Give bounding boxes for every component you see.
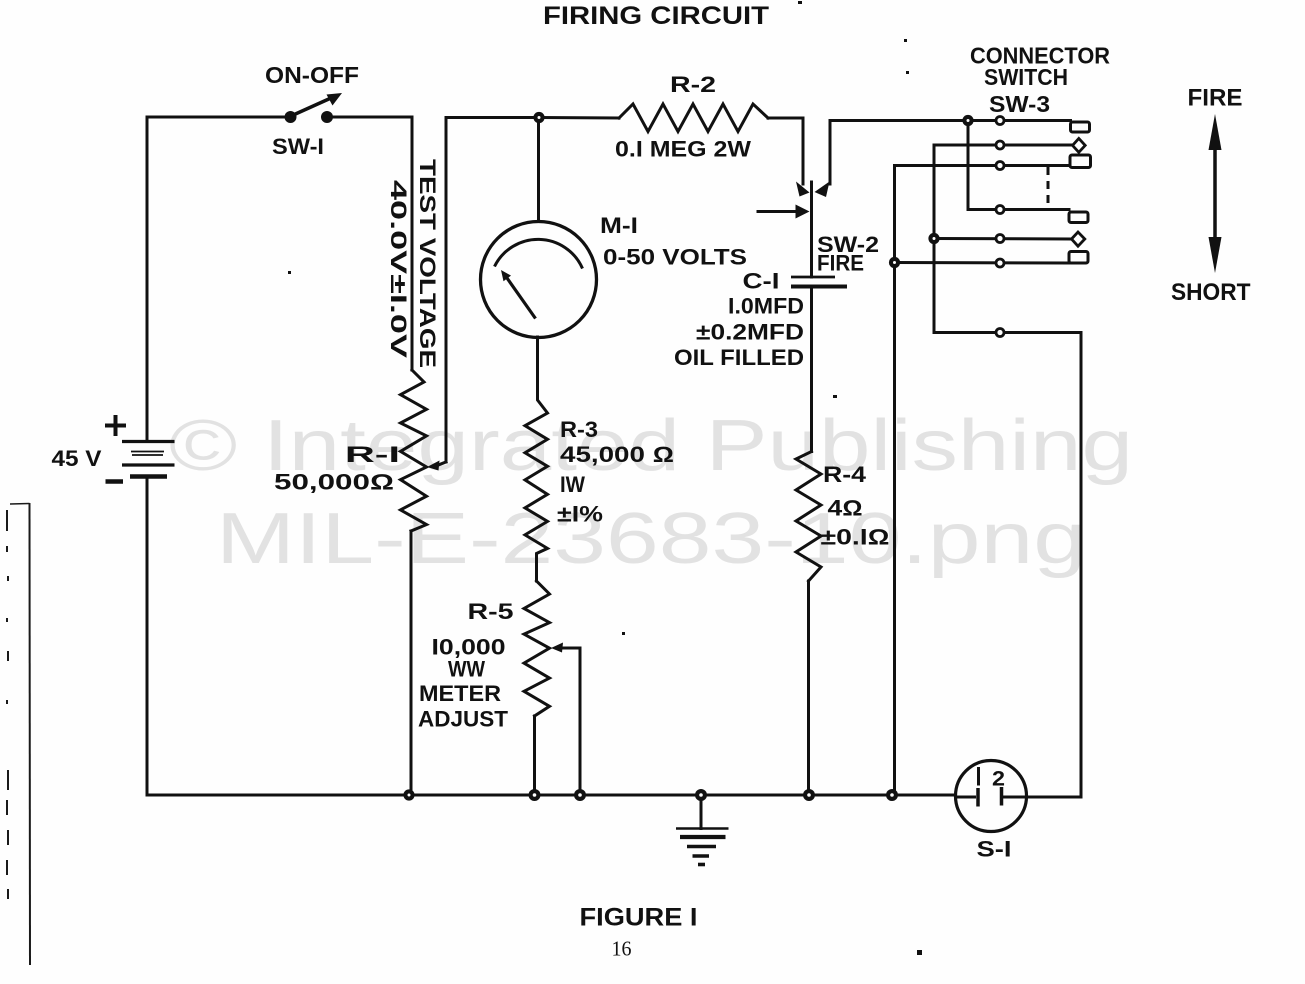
- battery 45V plates: [122, 440, 175, 443]
- junction node rail ground: [695, 789, 707, 801]
- connector S-1 circle: [956, 761, 1027, 832]
- connector SW-3 contact row 7: [996, 329, 1004, 337]
- svg-text:TEST VOLTAGE: TEST VOLTAGE: [415, 159, 440, 368]
- svg-text:±I%: ±I%: [557, 502, 603, 527]
- svg-text:16: 16: [612, 937, 632, 961]
- connector diamond contact row 5: [1072, 232, 1085, 246]
- connector SW-3 contact row 2: [996, 141, 1004, 149]
- connector pin terminal row 1: [1071, 122, 1090, 132]
- wire meter top lead: [537, 118, 540, 222]
- wire battery top to SW-1: [147, 117, 290, 442]
- svg-text:MIL-E-23683-10.png: MIL-E-23683-10.png: [216, 499, 1086, 579]
- S-1 right contact: [1000, 787, 1004, 806]
- junction node row 6: [889, 257, 900, 268]
- wire row 5: [934, 237, 1072, 241]
- capacitor C1 bottom plate: [791, 285, 847, 289]
- wire battery bottom rail: [147, 477, 956, 796]
- svg-text:0.I MEG 2W: 0.I MEG 2W: [615, 137, 751, 162]
- svg-text:FIRE: FIRE: [817, 251, 864, 276]
- junction node rail R-3: [529, 789, 541, 801]
- resistor R3 zigzag: [525, 337, 548, 581]
- S-1 pin 1 mark: [977, 767, 980, 786]
- meter M1 scale arc: [495, 239, 583, 268]
- fire-short direction arrow: [1213, 130, 1217, 260]
- SW-2 actuator line: [758, 210, 797, 213]
- wire C-1 to R-4: [810, 287, 813, 452]
- wire ground stem: [700, 795, 703, 829]
- meter M1 circle: [481, 222, 597, 338]
- junction node row 5: [928, 233, 939, 244]
- svg-text:ON-OFF: ON-OFF: [265, 62, 359, 88]
- svg-text:IW: IW: [560, 472, 585, 497]
- wire SW-2 pole to C-1: [810, 182, 813, 277]
- svg-text:OIL FILLED: OIL FILLED: [674, 345, 804, 370]
- svg-text:FIRE: FIRE: [1188, 85, 1243, 112]
- connector pin terminal row 4: [1069, 212, 1088, 223]
- wire S-1 left lead: [956, 796, 975, 799]
- connector SW-3 contact row 1: [996, 117, 1004, 125]
- wire rows 3-6 vertical to ground rail: [893, 166, 896, 796]
- connector SW-3 contact row 5: [996, 235, 1004, 243]
- S-1 left contact: [976, 788, 980, 807]
- svg-text:SW-3: SW-3: [989, 91, 1050, 117]
- battery plus sign: [105, 415, 126, 436]
- R-1 wiper diagonal: [437, 462, 446, 466]
- svg-text:ADJUST: ADJUST: [418, 707, 509, 732]
- wire row 2: [934, 144, 1073, 147]
- svg-text:S-I: S-I: [977, 837, 1012, 862]
- page edge artifact dashes: [7, 510, 8, 899]
- resistor R5 zigzag: [524, 581, 550, 716]
- svg-text:R-4: R-4: [823, 462, 867, 487]
- svg-text:±0.2MFD: ±0.2MFD: [696, 320, 804, 345]
- connector SW-3 contact row 3: [996, 162, 1004, 170]
- svg-text:SW-I: SW-I: [272, 134, 324, 159]
- wire R-2 right to SW-2 left blade: [768, 118, 803, 184]
- connector diamond contact row 2: [1073, 138, 1086, 152]
- R-5 wiper arrowhead: [551, 643, 563, 653]
- svg-text:R-3: R-3: [560, 417, 598, 442]
- svg-text:45,000 Ω: 45,000 Ω: [560, 442, 674, 467]
- wire row 6: [895, 261, 1070, 265]
- wire R-1 wiper riser and top feed to R-2: [446, 118, 619, 463]
- R-1 wiper arrowhead: [427, 461, 440, 471]
- wire top right to connector row 1: [830, 119, 1071, 122]
- switch SW-1 contact dots: [285, 111, 297, 123]
- svg-text:0-50 VOLTS: 0-50 VOLTS: [603, 245, 747, 270]
- wire R-4 bottom lead: [807, 581, 810, 795]
- switch SW-1 blade: [291, 98, 331, 116]
- svg-text:R-2: R-2: [670, 72, 716, 97]
- svg-text:R-I: R-I: [345, 442, 400, 467]
- connector pin terminal row 3: [1070, 155, 1091, 168]
- battery minus sign: [106, 479, 124, 484]
- connector SW-3 contact row 4: [996, 206, 1004, 214]
- wire R-5 wiper to rail: [560, 648, 580, 795]
- svg-text:FIRING CIRCUIT: FIRING CIRCUIT: [543, 2, 769, 30]
- svg-text:C-I: C-I: [743, 269, 780, 294]
- svg-text:R-5: R-5: [468, 599, 514, 624]
- svg-text:M-I: M-I: [600, 213, 638, 238]
- svg-text:2: 2: [992, 768, 1005, 791]
- specks: [288, 271, 291, 274]
- svg-text:I.0MFD: I.0MFD: [728, 294, 804, 319]
- svg-text:4Ω: 4Ω: [828, 496, 863, 521]
- resistor R4 zigzag: [796, 452, 821, 582]
- svg-text:SWITCH: SWITCH: [984, 64, 1068, 90]
- wire R-3 R-5 bottom lead: [533, 716, 536, 795]
- capacitor C1 top plate: [791, 276, 835, 279]
- junction node rail short line: [886, 789, 898, 801]
- ground symbol bars: [676, 827, 729, 830]
- wire SW-1 to R-1 top: [328, 117, 413, 370]
- wire row 7 to S-1: [934, 333, 1081, 798]
- wire rows 2-5-7 vertical: [933, 145, 936, 333]
- wire row 3: [895, 164, 1071, 167]
- dashed link rows 3-4: [1047, 167, 1050, 210]
- svg-text:SHORT: SHORT: [1171, 279, 1251, 306]
- connector pin terminal row 6: [1069, 252, 1088, 264]
- svg-text:±0.IΩ: ±0.IΩ: [821, 525, 890, 550]
- junction node rail R-1: [403, 789, 414, 800]
- connector SW-3 contact row 6: [996, 259, 1004, 267]
- switch SW-2 actuator arrowhead: [796, 205, 810, 219]
- svg-text:50,000Ω: 50,000Ω: [274, 470, 394, 495]
- svg-text:METER: METER: [419, 681, 501, 706]
- junction node rail R-5 wiper: [574, 789, 586, 801]
- svg-text:40.0V±I.0V: 40.0V±I.0V: [386, 180, 411, 359]
- svg-text:WW: WW: [448, 657, 485, 682]
- wire node to rows 1-4 vertical: [968, 121, 1069, 210]
- resistor R1 zigzag: [401, 370, 427, 531]
- junction node rail R-4: [803, 789, 815, 801]
- junction node row 1: [962, 115, 973, 126]
- resistor R2 zigzag: [619, 104, 768, 132]
- wire SW-2 right blade drop: [829, 121, 832, 185]
- junction node R-2/meter: [533, 112, 544, 123]
- svg-text:FIGURE I: FIGURE I: [580, 904, 698, 932]
- meter M1 needle: [507, 278, 536, 319]
- switch SW-2 right arrowhead: [815, 182, 830, 198]
- wire R-1 bottom lead: [410, 531, 413, 795]
- svg-text:45 V: 45 V: [52, 446, 102, 471]
- switch SW-2 left arrowhead: [796, 182, 810, 197]
- page edge artifact line: [29, 503, 32, 965]
- wire S-1 right lead: [1003, 796, 1081, 799]
